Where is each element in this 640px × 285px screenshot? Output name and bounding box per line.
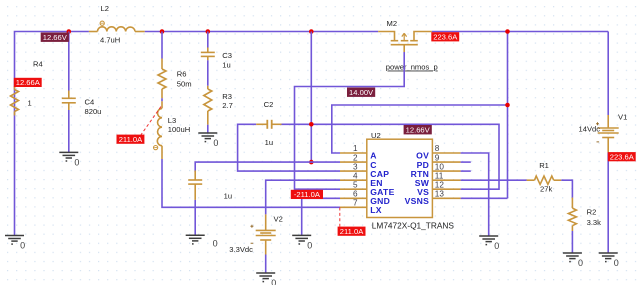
svg-text:2.7: 2.7 [222,101,233,110]
ground R2 [563,253,582,262]
svg-text:50m: 50m [177,79,192,88]
svg-text:820u: 820u [85,107,102,116]
svg-text:8: 8 [435,144,440,153]
svg-text:M2: M2 [387,19,398,28]
wire top bus middle segment [145,31,378,33]
ground V2 [256,273,275,282]
svg-text:100uH: 100uH [168,125,190,134]
svg-text:223.6A: 223.6A [433,33,458,42]
node junction 14V [505,103,510,108]
node junction bus/C3 [206,29,211,34]
node 223.6A current label (M2) [431,32,459,41]
node junction C pin net [309,160,314,165]
svg-text:9: 9 [435,153,440,162]
wire top bus left segment [15,32,89,236]
inductor L2 [89,4,145,45]
wire OV pin to ground [461,153,489,236]
wire VSNS pin [461,197,508,199]
capacitor 1u (C pin bypass) [188,171,232,201]
svg-text:0: 0 [614,258,619,268]
svg-text:R2: R2 [587,207,597,216]
svg-text:U2: U2 [371,131,381,140]
svg-text:1: 1 [28,99,32,108]
wire V1 bottom [607,153,609,253]
wire V2 bottom [265,255,267,274]
inductor L3 [154,101,191,159]
capacitor C2 [256,100,281,147]
ground V1 [599,253,618,262]
resistor R3 [204,86,233,125]
svg-text:0: 0 [213,138,218,148]
wire cap to ground [194,200,196,235]
wire SW pin to R1 [461,179,527,181]
ground OV [479,236,498,245]
node 14.00V label [347,88,375,97]
svg-text:V2: V2 [274,214,283,223]
wire C4 bottom [68,110,70,152]
svg-text:223.6A: 223.6A [610,153,635,162]
resistor R2 [568,198,601,231]
wire EN pin to V2 [266,180,340,214]
capacitor C4 [62,91,102,116]
wire 14V node to A pin [332,105,508,153]
svg-text:V1: V1 [618,113,627,122]
wire dashed probe to L3 [141,106,162,136]
svg-text:0: 0 [271,278,276,285]
wire L3 to LX [162,159,340,207]
ground R4 [5,236,24,245]
svg-text:C4: C4 [85,98,95,107]
wire dashed probe LX [339,208,341,227]
svg-text:R4: R4 [33,60,43,69]
svg-text:27k: 27k [540,184,552,193]
svg-text:12: 12 [435,180,445,189]
wire top bus right segment [432,31,608,33]
node 211.0A current label (L3) [117,135,145,144]
wire C3 top [207,32,209,48]
resistor R6 [158,59,192,99]
wire GND pin to ground [302,198,340,235]
wire 14V vertical [507,32,509,199]
svg-text:0: 0 [20,241,25,251]
wire C4 top [68,32,70,91]
ground 1u cap [186,235,205,244]
svg-text:LM7472X-Q1_TRANS: LM7472X-Q1_TRANS [372,221,455,231]
node junction C2 net [309,122,314,127]
svg-text:13: 13 [435,190,445,199]
svg-text:R1: R1 [539,161,549,170]
svg-text:2: 2 [353,153,358,162]
wire M2 gate to GATE pin [295,52,405,189]
battery V2 [229,214,282,254]
svg-text:C2: C2 [264,100,274,109]
svg-text:R3: R3 [222,92,232,101]
capacitor C3 [201,48,232,70]
svg-text:211.0A: 211.0A [340,227,364,236]
svg-text:11: 11 [435,171,444,180]
wire C2 right to VS pin [282,124,500,189]
wire R6-L3 [161,98,163,101]
svg-text:power_nmos_p: power_nmos_p [386,63,438,72]
svg-text:-211.0A: -211.0A [294,190,321,199]
node -211.0A current label [291,190,323,199]
node junction bus/VSNS [505,29,510,34]
svg-text:0: 0 [74,157,79,167]
svg-text:7: 7 [353,199,358,208]
svg-text:0: 0 [494,241,499,251]
wire R2 bottom [571,231,573,253]
resistor R1 [527,161,562,193]
svg-text:5: 5 [353,180,358,189]
wire R6 top [161,32,163,59]
ground R3 [198,133,217,142]
wire R3 bottom [207,125,209,133]
node 211.0A current label (LX) [338,227,366,236]
svg-text:3.3k: 3.3k [587,218,602,227]
svg-text:1u: 1u [224,191,232,200]
svg-text:VSNS: VSNS [405,196,430,206]
svg-text:12.66A: 12.66A [16,78,41,87]
wire V1 top [607,32,609,116]
svg-text:4: 4 [353,171,358,180]
node 223.6A current label (V1) [608,152,636,161]
battery V1 [579,113,628,153]
svg-text:4.7uH: 4.7uH [100,36,120,45]
node 12.66V label (bus) [41,33,69,42]
svg-text:14.00V: 14.00V [349,88,374,97]
svg-text:10: 10 [435,162,445,171]
svg-text:1u: 1u [265,138,273,147]
ground GND pin [292,235,311,244]
node junction bus/12.66V net [309,29,314,34]
svg-text:C3: C3 [222,51,232,60]
svg-text:6: 6 [353,190,358,199]
svg-text:3.3Vdc: 3.3Vdc [229,245,253,254]
svg-text:12.66V: 12.66V [43,33,68,42]
svg-text:LX: LX [370,205,382,215]
wire RTN pin stub [461,170,471,172]
svg-text:0: 0 [578,258,583,268]
wire C3-R3 [207,60,209,86]
svg-text:211.0A: 211.0A [119,135,143,144]
node junction bus/R6 [160,29,165,34]
op-amp U2 LM7472X-Q1_TRANS [340,131,461,231]
node 12.66V label (U2) [404,125,432,134]
wire R1 to R2 [561,180,572,197]
svg-text:12.66V: 12.66V [406,126,431,135]
ground C4 [59,152,78,161]
wire C2 left / CAP pin net [238,124,340,171]
transistor M2 [378,19,432,52]
node 12.66A current label [14,78,42,87]
wire C pin to cap [195,162,340,172]
svg-text:0: 0 [213,238,218,248]
wire bus to C pin net [310,32,312,163]
node junction bus/C4 [67,29,72,34]
svg-text:L2: L2 [101,4,109,13]
svg-text:0: 0 [307,240,312,250]
wire PD pin stub [461,161,471,163]
svg-text:3: 3 [353,162,358,171]
svg-text:1: 1 [353,144,358,153]
svg-text:L3: L3 [168,116,176,125]
resistor R4 [11,60,43,116]
svg-text:1u: 1u [222,60,230,69]
svg-text:14Vdc: 14Vdc [579,125,601,134]
svg-text:R6: R6 [177,70,187,79]
